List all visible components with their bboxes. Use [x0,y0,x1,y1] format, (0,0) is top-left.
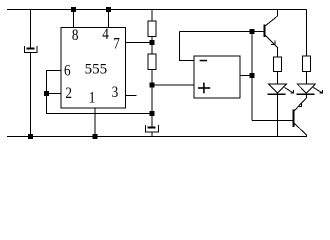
LED D1 [267,84,293,94]
wire Q2 base line [252,120,294,122]
label op-amp minus [200,60,207,62]
svg-text:8: 8 [72,27,79,44]
wire R2 bottom to C2 [151,70,153,127]
wire pin 1 lead [94,108,96,137]
svg-text:4: 4 [102,26,109,43]
wire R3 to LED1 [277,72,279,85]
wire pin2 node to C2 [47,94,153,114]
wire pin 4 lead [108,10,110,28]
wire feedback vertical [251,32,253,121]
wire R1 top lead [151,10,153,22]
wire LED2 cathode to Q2 emitter [305,94,307,98]
wire R1-R2 link [151,37,153,55]
wire inverting input [180,32,195,61]
capacitor C1 [25,46,38,53]
wire C1 top lead [30,10,32,48]
wire pin 7 lead [126,42,153,44]
wire C1 bottom lead [30,53,32,137]
node pin4/Vcc [106,7,111,12]
op-amp U2 box [194,56,240,98]
svg-text:3: 3 [112,84,119,101]
wire bottom ground rail [7,136,307,138]
transistor Q2 [294,98,307,137]
node C1/gnd [28,134,33,139]
wire Q1 collector vertical [277,10,279,17]
wire pin7 node to opamp + input [152,84,194,86]
svg-text:2: 2 [65,85,72,102]
node dots [28,7,255,139]
label op-amp plus [198,83,210,94]
wire pin 3 stub [126,95,137,97]
resistor R1 [148,21,156,37]
node R2/opamp+ [150,83,155,88]
wire op-amp output [240,75,252,77]
555 timer U1 box [61,28,126,109]
svg-text:1: 1 [89,90,96,107]
LED D2 [296,84,322,94]
wire R4 to LED2 [305,72,307,85]
wire Q1 emitter vertical [277,47,279,57]
resistor R4 [302,56,310,72]
node pin1/gnd [93,134,98,139]
resistor R3 [274,57,282,72]
wire LED1 cathode to ground [277,94,279,136]
node base line/feedback [250,29,255,34]
node output/feedback [250,73,255,78]
node C2 top [150,111,155,116]
svg-text:555: 555 [85,61,108,77]
wire pin 6 / pin 2 link [47,71,62,94]
node pin8/Vcc [71,7,76,12]
transistor Q1 [265,16,278,48]
wire top supply rail [7,9,306,11]
resistor R2 [148,54,156,70]
wire pin 8 lead [73,10,75,28]
svg-text:6: 6 [64,63,71,80]
svg-text:7: 7 [113,36,120,53]
wire top rail right corner to R4 [305,10,307,57]
node pin2 [44,91,49,96]
wire C2 bottom lead [151,132,153,137]
wire base line to Q1 [180,31,265,33]
capacitor C2 [145,125,158,132]
node pin7/R1/R2 [150,40,155,45]
